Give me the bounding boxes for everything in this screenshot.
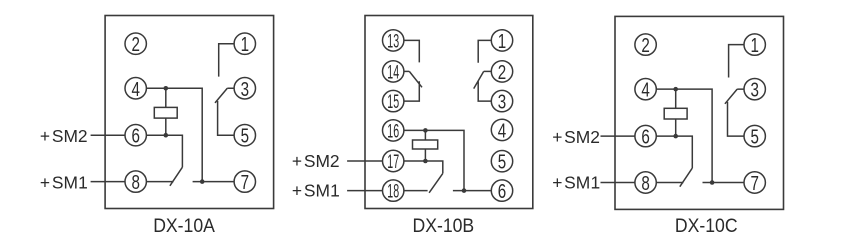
wire pin 1 fixed contact — [729, 45, 744, 78]
svg-text:2: 2 — [498, 61, 506, 84]
pin 5 — [234, 125, 255, 146]
relay case outline DX-10B — [365, 16, 533, 209]
pin 4 — [125, 78, 146, 99]
wire pin 3 — [478, 81, 491, 101]
pin 6 — [491, 180, 512, 201]
wire +SM1 lead to pin 8 — [601, 182, 635, 184]
pin 17 — [383, 150, 404, 171]
junction dot on pin 7 wire — [710, 180, 715, 185]
wire pin 16 to right rail down to pin 6 — [404, 130, 464, 190]
contact blade upper — [725, 89, 737, 104]
pin 14 — [383, 61, 404, 82]
svg-text:6: 6 — [131, 125, 139, 148]
junction dot on pin 4 wire — [673, 87, 678, 92]
wire pin 3 — [737, 88, 744, 90]
wire pin 15 — [404, 81, 419, 101]
pin 4 — [635, 78, 656, 99]
svg-text:DX-10C: DX-10C — [675, 214, 738, 236]
svg-text:16: 16 — [387, 121, 399, 142]
pin 16 — [383, 120, 404, 141]
pin 7 — [744, 172, 765, 193]
svg-text:3: 3 — [241, 78, 249, 101]
wire +SM1 lead to pin 18 — [347, 190, 382, 192]
svg-text:+SM1: +SM1 — [40, 172, 88, 192]
svg-text:18: 18 — [387, 181, 399, 202]
wire pin 13 fixed contact — [404, 40, 419, 62]
wire coil feed vertical — [165, 88, 167, 135]
junction dot on pin 7 wire — [200, 179, 205, 184]
wire +SM2 lead to pin 17 — [347, 160, 382, 162]
svg-text:8: 8 — [131, 171, 139, 194]
pin 1 — [491, 30, 512, 51]
svg-text:14: 14 — [387, 62, 399, 83]
svg-text:4: 4 — [498, 119, 506, 142]
pin 7 — [234, 171, 255, 192]
svg-text:3: 3 — [498, 90, 506, 113]
wire pin 5 — [218, 101, 235, 135]
junction dot on pin 17 wire — [423, 159, 428, 164]
svg-text:1: 1 — [498, 30, 506, 53]
junction dot on pin 6 wire — [673, 134, 678, 139]
pin 13 — [383, 30, 404, 51]
wire +SM2 lead to pin 6 — [91, 134, 125, 136]
contact blade upper — [215, 88, 227, 103]
junction dot on pin 16 wire — [423, 128, 428, 133]
wire pin 6 to contact arm — [656, 136, 692, 168]
pin 8 — [125, 171, 146, 192]
svg-text:1: 1 — [750, 34, 758, 57]
svg-text:2: 2 — [131, 33, 139, 56]
contact blade upper right — [474, 71, 484, 88]
wire coil feed vertical — [424, 130, 426, 161]
svg-text:DX-10A: DX-10A — [153, 214, 215, 236]
relay case outline DX-10A — [105, 16, 274, 209]
pin 15 — [383, 90, 404, 111]
svg-text:4: 4 — [641, 78, 649, 101]
pin 5 — [744, 125, 765, 146]
pin 2 — [635, 34, 656, 55]
svg-text:5: 5 — [498, 151, 506, 174]
wire pin 6 with fixed contact stub — [453, 190, 491, 192]
contact blade lower — [429, 173, 443, 192]
wire pin 1 fixed contact — [219, 44, 234, 77]
svg-text:2: 2 — [641, 34, 649, 57]
wire pin 8 — [656, 182, 683, 184]
svg-text:4: 4 — [131, 78, 139, 101]
pin 2 — [125, 33, 146, 54]
svg-text:6: 6 — [641, 125, 649, 148]
junction dot on pin 6 wire — [462, 188, 467, 193]
coil KA winding — [154, 107, 177, 118]
wire +SM2 lead to pin 6 — [601, 135, 635, 137]
svg-text:5: 5 — [750, 125, 758, 148]
wire pin 1 fixed contact — [478, 40, 491, 62]
wire pin 6 to contact arm — [146, 135, 182, 167]
svg-text:5: 5 — [241, 125, 249, 148]
pin 18 — [383, 180, 404, 201]
wire pin 2 — [484, 70, 492, 72]
wire pin 14 — [404, 70, 409, 72]
pin 3 — [234, 78, 255, 99]
junction dot on pin 6 wire — [164, 133, 169, 138]
pin 2 — [491, 61, 512, 82]
junction dot on pin 4 wire — [164, 86, 169, 91]
svg-text:7: 7 — [241, 171, 249, 194]
svg-text:+SM1: +SM1 — [552, 173, 600, 193]
svg-text:7: 7 — [750, 172, 758, 195]
svg-text:6: 6 — [498, 180, 506, 203]
wire pin 8 — [146, 181, 173, 183]
pin 3 — [491, 90, 512, 111]
wire pin 17 to contact arm — [404, 161, 443, 173]
svg-text:+SM2: +SM2 — [552, 127, 600, 147]
pin 4 — [491, 119, 512, 140]
svg-text:13: 13 — [387, 31, 399, 52]
wire pin 7 with fixed contact stub — [703, 182, 745, 184]
pin 6 — [635, 125, 656, 146]
pin 1 — [234, 33, 255, 54]
wire +SM1 lead to pin 8 — [91, 181, 125, 183]
contact blade upper left — [409, 71, 422, 87]
svg-text:3: 3 — [750, 78, 758, 101]
relay case outline DX-10C — [615, 16, 784, 209]
pin 6 — [125, 125, 146, 146]
pin 3 — [744, 78, 765, 99]
svg-text:DX-10B: DX-10B — [413, 214, 475, 236]
svg-text:17: 17 — [387, 152, 399, 173]
coil KA winding — [664, 108, 687, 119]
contact blade lower — [170, 167, 183, 186]
svg-text:+SM2: +SM2 — [40, 126, 88, 146]
wire pin 7 with fixed contact stub — [193, 181, 235, 183]
svg-text:+SM1: +SM1 — [292, 181, 340, 201]
wire pin 4 to right rail down to pin 7 row — [656, 89, 712, 182]
wire pin 3 — [227, 87, 234, 89]
wire pin 18 — [404, 190, 428, 192]
contact blade lower — [680, 168, 693, 187]
wire coil feed vertical — [675, 89, 677, 136]
svg-text:+SM2: +SM2 — [292, 151, 340, 171]
coil KA winding — [413, 140, 438, 149]
svg-text:8: 8 — [641, 172, 649, 195]
pin 5 — [491, 151, 512, 172]
svg-text:1: 1 — [241, 33, 249, 56]
svg-text:15: 15 — [387, 92, 399, 113]
pin 8 — [635, 172, 656, 193]
pin 1 — [744, 34, 765, 55]
wire pin 4 to right rail down to pin 7 row — [146, 88, 202, 181]
wire pin 5 — [728, 102, 745, 136]
